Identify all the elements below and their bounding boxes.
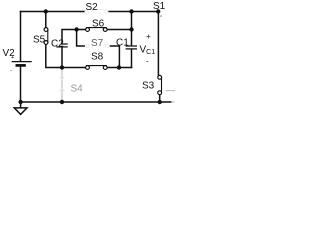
switch S3 terminal circles — [158, 75, 162, 94]
wire C2 bottom lead — [61, 47, 63, 67]
switch S6 blade — [86, 27, 107, 29]
switch S8 terminal circles — [86, 66, 108, 70]
switch S7 (open, faint) — [85, 44, 109, 48]
wire node X rail left (C2 top lead) — [62, 30, 86, 44]
label S7 — [90, 38, 104, 49]
svg-text:+: + — [146, 32, 151, 41]
ground symbol — [14, 108, 27, 115]
wire S7 left branch — [77, 30, 86, 47]
switch S6 terminal circles — [86, 28, 108, 32]
switch S5 terminal circles — [44, 28, 48, 45]
svg-text:C2: C2 — [51, 38, 64, 49]
svg-text:S4: S4 — [71, 83, 84, 94]
wire S5 branch from top rail — [45, 12, 47, 28]
capacitor C1 plates — [126, 46, 137, 49]
junction dot S3 bottom — [158, 100, 162, 104]
junction dot node Y / C1 bottom — [117, 65, 121, 69]
svg-text:-: - — [10, 68, 12, 74]
wire S3 bottom lead — [159, 95, 161, 102]
wire C1 top lead from top rail — [131, 12, 133, 46]
wire S7 right branch down to node Y — [109, 46, 119, 68]
svg-text:-: - — [146, 57, 149, 66]
wire left rail upper (V2 top lead) — [20, 12, 22, 62]
switch S8 blade — [86, 65, 107, 67]
wire top rail right segment — [108, 11, 158, 13]
svg-text:S3: S3 — [142, 81, 155, 92]
junction dot S4 bottom — [60, 100, 64, 104]
svg-text:S8: S8 — [91, 52, 104, 63]
switch S5 blade — [47, 30, 49, 43]
svg-text:S1: S1 — [153, 1, 166, 12]
svg-text:S7: S7 — [91, 38, 104, 49]
wire right rail (S1 node to S3) — [157, 12, 159, 76]
wire ground stub — [20, 102, 22, 108]
wire C1 bottom lead — [131, 49, 133, 67]
wire S5 to mid rail — [46, 45, 85, 68]
junction dot top rail / S5 — [44, 9, 48, 13]
tiny faint mark below S1 node — [160, 15, 162, 17]
junction dot node X / S7 branch — [74, 27, 78, 31]
junction dot node Z / C2 bottom — [60, 65, 64, 69]
junction dot top rail / C1 branch — [129, 9, 133, 13]
wire top rail left segment — [21, 11, 85, 13]
switch S4 (open, faint vertical) — [60, 70, 64, 101]
svg-text:S6: S6 — [92, 18, 105, 29]
svg-text:+: + — [11, 55, 14, 61]
junction dot ground corner — [18, 100, 22, 104]
wire bottom ground rail — [21, 101, 172, 103]
svg-text:S2: S2 — [86, 2, 99, 13]
battery V2 short negative plate — [16, 64, 26, 67]
switch S2 (open, faint) — [85, 10, 108, 14]
label C2 — [51, 38, 65, 50]
battery V2 long positive plate — [12, 61, 32, 63]
switch S3 blade — [161, 77, 163, 92]
capacitor C2 plates — [56, 44, 67, 47]
svg-text:C1: C1 — [116, 38, 129, 49]
svg-text:S5: S5 — [33, 35, 46, 46]
wire S6 right to node — [107, 29, 132, 31]
wire faint stub to right edge — [166, 90, 175, 92]
wire S8 right to node Y — [107, 67, 132, 69]
junction dot node X / C1 top — [129, 27, 133, 31]
wire left rail lower (V2 bottom lead) — [20, 66, 22, 102]
node S1 junction dot — [156, 9, 160, 13]
wire bottom rail faint tail — [171, 101, 175, 103]
